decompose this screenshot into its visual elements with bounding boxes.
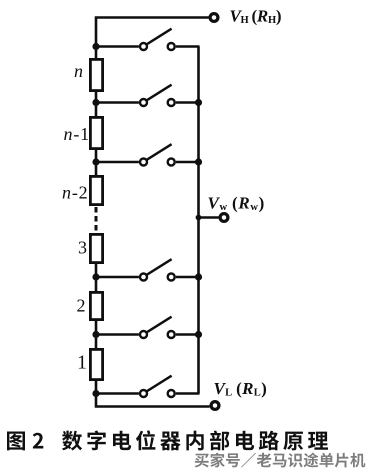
svg-text:2: 2 bbox=[77, 296, 86, 316]
svg-text:n: n bbox=[74, 61, 83, 81]
svg-text:n-2: n-2 bbox=[62, 183, 88, 203]
svg-text:n-1: n-1 bbox=[64, 124, 90, 144]
svg-text:3: 3 bbox=[78, 238, 87, 258]
svg-text:1: 1 bbox=[77, 353, 87, 374]
